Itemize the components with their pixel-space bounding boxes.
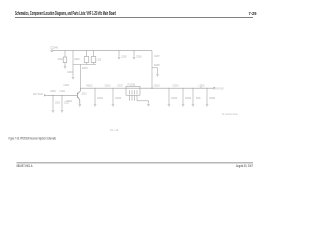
svg-text:C3217: C3217 [117,83,123,87]
ground [206,105,209,107]
footer rule [17,162,254,165]
svg-text:C-4: C-4 [110,128,119,132]
svg-text:C3221: C3221 [97,96,103,100]
wire right riser [151,51,153,88]
svg-text:C3205: C3205 [121,55,127,59]
svg-text:6816971H01-A: 6816971H01-A [17,164,34,168]
svg-text:Figure 7-36. PRO5100 Receiver: Figure 7-36. PRO5100 Receiver Injection … [9,137,57,141]
svg-text:R3225: R3225 [196,96,201,100]
svg-text:R3215: R3215 [87,83,93,87]
svg-text:C3222: C3222 [115,96,121,100]
capacitor C3206 [133,51,135,57]
ground [192,105,195,107]
ground [147,104,150,106]
ground [72,77,75,79]
filter FL3201 [126,86,140,95]
capacitor C3205 [118,51,120,57]
capacitor C3221 [94,88,96,104]
ground [118,57,121,59]
ground [64,67,67,69]
resistor R3204 collector feed [80,65,82,89]
svg-text:C3219: C3219 [173,83,179,87]
svg-text:Rx sections shown: Rx sections shown [222,112,238,116]
resistor R3201 [63,51,67,66]
svg-text:August 30, 2007: August 30, 2007 [236,164,253,168]
ground [156,75,159,77]
svg-text:C3223: C3223 [171,96,177,100]
filter FL3201 pins below [130,95,149,103]
transistor Q3201 [77,88,80,104]
capacitor C3224 [182,88,184,104]
svg-text:R3214: R3214 [67,99,73,103]
svg-text:C3202: C3202 [74,57,80,61]
svg-text:RX INJ: RX INJ [217,86,224,90]
capacitor C3203 [72,65,74,77]
capacitor C3222 [112,88,114,104]
junction dots [53,50,208,96]
capacitor C3223 [168,88,170,104]
ground [94,105,97,107]
node RX injection output [213,87,215,89]
inductor L3202 [84,51,89,65]
svg-text:R3226: R3226 [210,96,216,100]
svg-text:C3240: C3240 [50,45,58,49]
capacitor C3209 [52,95,54,110]
svg-text:C3207: C3207 [154,54,160,58]
svg-text:R3208: R3208 [154,63,160,67]
resistor R3225 [192,88,194,104]
inductor L3211 [61,95,63,110]
header rule [15,16,253,19]
svg-text:RX VCO: RX VCO [33,92,44,96]
svg-text:L3232: L3232 [97,57,102,61]
ground [52,111,55,113]
svg-text:Schematics, Component Location: Schematics, Component Location Diagrams,… [15,11,116,17]
ground [133,57,136,59]
svg-text:Q3201: Q3201 [82,91,87,95]
svg-text:R3204: R3204 [82,66,88,70]
svg-text:C3209: C3209 [50,89,56,93]
ground [79,105,82,107]
resistor R3208 [152,68,158,74]
svg-text:FL3201: FL3201 [128,82,136,86]
svg-text:C3216: C3216 [105,83,111,87]
svg-text:C3213: C3213 [64,83,70,87]
ground [168,105,171,107]
svg-text:L3211: L3211 [60,89,66,93]
wire input line [47,94,78,96]
ground [61,111,64,113]
capacitor C3231 [91,51,96,65]
wire bias drop [72,51,74,65]
svg-text:C3203: C3203 [67,70,73,74]
ground [182,105,185,107]
svg-text:C3218: C3218 [154,83,160,87]
svg-text:L3220: L3220 [199,83,205,87]
wire top bus [51,50,152,52]
svg-text:7-29: 7-29 [249,11,257,16]
wire main output line [81,87,214,89]
node junction riser/main [151,88,152,89]
svg-text:C3210: C3210 [55,100,60,104]
wire bias rail [73,64,96,66]
wire input arrow [44,94,46,96]
resistor R3226 [206,88,208,104]
svg-text:C3224: C3224 [185,96,191,100]
ground [112,105,115,107]
svg-text:R3201: R3201 [58,57,63,61]
svg-text:C3206: C3206 [136,55,142,59]
